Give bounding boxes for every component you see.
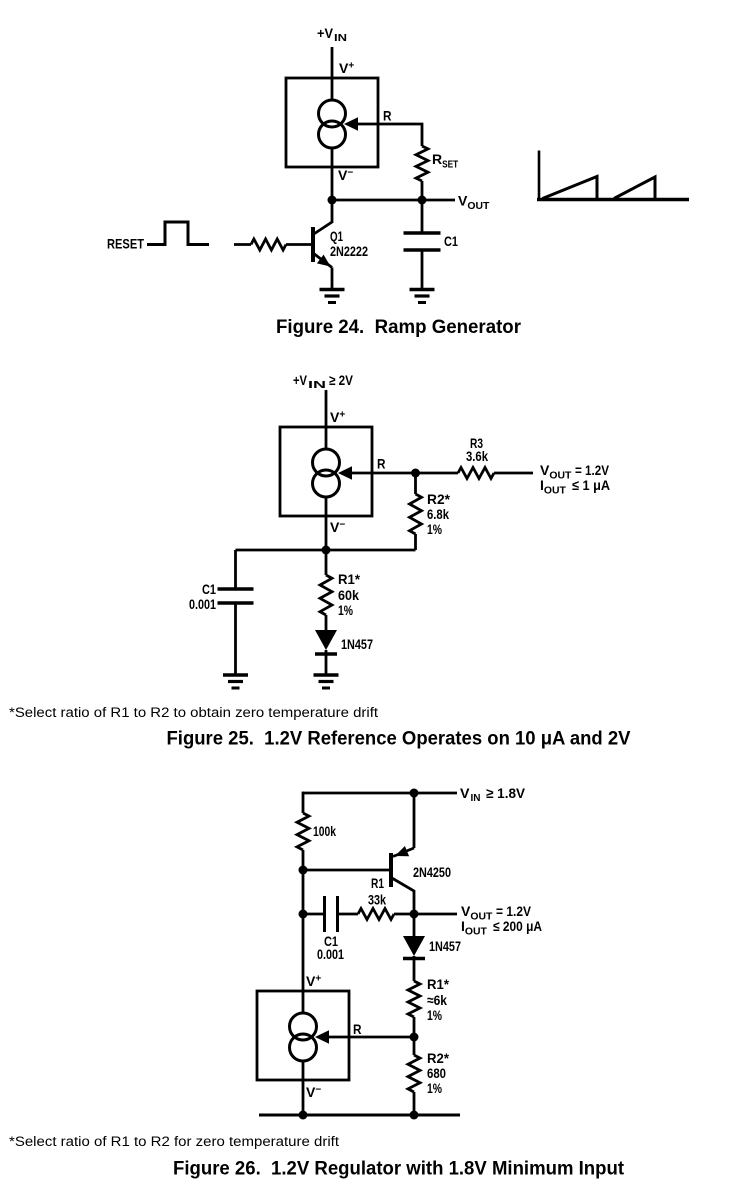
wire R1* to R node (Fig26) xyxy=(413,1017,416,1037)
svg-text:3.6k: 3.6k xyxy=(466,448,488,464)
current source U1 box (Fig26 LM134) xyxy=(257,991,349,1080)
svg-text:0.001: 0.001 xyxy=(189,596,216,612)
transistor 2N4250 emitter wire from rail xyxy=(413,793,416,848)
ground under C1 (Fig24) xyxy=(410,288,435,291)
wire bottom rail C1 to R2 (Fig25) xyxy=(236,549,416,552)
current source U1 lower circle (Fig25) xyxy=(313,470,340,497)
junction dot bottom rail left (Fig26) xyxy=(299,1111,308,1120)
svg-text:Q1: Q1 xyxy=(330,228,343,244)
transistor 2N4250 emitter with arrow xyxy=(393,848,414,857)
junction dot on rail (Fig25) xyxy=(322,546,331,555)
junction dot collector/VOUT (Fig26) xyxy=(410,910,419,919)
svg-text:1%: 1% xyxy=(427,1080,442,1096)
svg-text:33k: 33k xyxy=(368,892,386,908)
svg-text:1N457: 1N457 xyxy=(341,636,373,652)
current source U1 lower circle (Fig26) xyxy=(290,1034,317,1061)
svg-text:VIN≥ 1.8V: VIN≥ 1.8V xyxy=(460,785,526,804)
svg-text:+VIN≥ 2V: +VIN≥ 2V xyxy=(293,372,354,391)
current source U1 upper circle xyxy=(319,100,346,127)
capacitor C1 (Fig24) wire xyxy=(421,200,424,233)
svg-text:680: 680 xyxy=(427,1065,446,1081)
wire VOUT node to C1 (Fig26) xyxy=(303,913,324,916)
wire left rail down to VOUT node (Fig26) xyxy=(302,870,305,914)
svg-text:100k: 100k xyxy=(313,823,336,839)
wire R pin to RSET (Fig24) xyxy=(357,124,422,146)
capacitor C1 plates (Fig24) xyxy=(404,231,441,234)
resistor R2* 6.8k xyxy=(410,494,422,534)
ground under diode (Fig25) xyxy=(314,673,339,676)
wire +VIN to current source (Fig25) xyxy=(325,390,328,449)
capacitor C1 plates (Fig25) xyxy=(218,587,254,590)
svg-text:R1*: R1* xyxy=(427,976,450,992)
resistor R1 33k (Fig26) xyxy=(358,909,394,920)
wire RESET to base resistor xyxy=(234,243,251,246)
wire R node to current source arrow (Fig26) xyxy=(328,1036,414,1039)
resistor R1* ~6k xyxy=(408,981,420,1017)
ground under C1 (Fig25) xyxy=(223,673,248,676)
capacitor C1 plates (Fig26) xyxy=(323,896,326,932)
current source U1 box (Fig25 LM134) xyxy=(280,427,372,516)
svg-text:≈6k: ≈6k xyxy=(427,992,447,1008)
current source U1 R-pin arrow xyxy=(344,117,358,131)
transistor Q1 emitter with arrow xyxy=(313,253,332,268)
wire R1 top lead (Fig25) xyxy=(325,550,328,575)
svg-text:2N4250: 2N4250 xyxy=(413,864,451,880)
svg-text:60k: 60k xyxy=(338,587,359,603)
wire C1 to ground (Fig25) xyxy=(234,603,237,675)
junction dot bottom rail right (Fig26) xyxy=(410,1111,419,1120)
current source U1 upper circle (Fig25) xyxy=(313,449,340,476)
junction node dot at V- / collector (Fig24) xyxy=(328,196,337,205)
svg-text:Figure 25. 1.2V Reference Ope: Figure 25. 1.2V Reference Operates on 10… xyxy=(167,728,631,750)
base resistor (Fig24) xyxy=(251,239,286,250)
sawtooth ramp 2 xyxy=(614,177,655,200)
resistor R1* 60k xyxy=(320,575,332,615)
current source U1 R-pin arrow (Fig26) xyxy=(315,1030,329,1044)
svg-text:R: R xyxy=(377,456,386,472)
capacitor C1 top wire (Fig25) xyxy=(234,550,237,589)
svg-text:V−: V− xyxy=(338,167,353,183)
junction dot top rail (Fig26) xyxy=(410,789,419,798)
transistor Q1 collector wire xyxy=(313,200,332,235)
wire VOUT line (Fig24) xyxy=(332,199,455,202)
current source U1 R-pin arrow (Fig25) xyxy=(338,466,352,480)
wire Q1 emitter to ground xyxy=(331,268,334,290)
svg-text:R2*: R2* xyxy=(427,491,451,507)
svg-text:R1*: R1* xyxy=(338,571,361,587)
resistor R2* 680 xyxy=(408,1055,420,1092)
svg-text:RSET: RSET xyxy=(432,151,458,171)
wire current source V- to VOUT node (Fig24) xyxy=(331,148,334,200)
current source U1 lower circle xyxy=(319,121,346,148)
sawtooth ramp 1 xyxy=(543,177,598,200)
svg-text:V+: V+ xyxy=(330,409,345,425)
RESET pulse waveform xyxy=(147,222,209,245)
wire current source V+ top (Fig26) xyxy=(302,914,305,1013)
current source U1 box (Fig24 LM134) xyxy=(286,78,378,167)
wire diode to ground (Fig25) xyxy=(325,650,328,675)
sawtooth output waveform axis xyxy=(538,151,541,201)
svg-text:1%: 1% xyxy=(338,602,353,618)
svg-text:0.001: 0.001 xyxy=(317,946,344,962)
wire R1 to VOUT (Fig26) xyxy=(394,913,457,916)
junction dot R/R2/R3 (Fig25) xyxy=(411,469,420,478)
svg-text:R2*: R2* xyxy=(427,1050,450,1066)
wire R1 to diode (Fig25) xyxy=(325,615,328,631)
resistor R3 3.6k xyxy=(458,468,494,479)
wire current source V- to bottom rail (Fig26) xyxy=(302,1061,305,1115)
diode 1N457 (Fig26) xyxy=(403,936,425,956)
wire bottom rail (Fig26) xyxy=(259,1114,460,1117)
wire R2* to bottom rail (Fig26) xyxy=(413,1092,416,1115)
wire base resistor to Q1 base xyxy=(286,243,311,246)
wire C1 to R1 (Fig26) xyxy=(338,913,358,916)
svg-text:*Select ratio of R1 to R2 for: *Select ratio of R1 to R2 for zero tempe… xyxy=(9,1134,339,1149)
svg-text:Figure 26. 1.2V Regulator wit: Figure 26. 1.2V Regulator with 1.8V Mini… xyxy=(173,1158,624,1180)
transistor 2N4250 collector xyxy=(391,878,414,915)
resistor 100k xyxy=(297,813,309,850)
wire VOUT to diode (Fig26) xyxy=(413,914,416,937)
wire base node to Q1 base (Fig26) xyxy=(303,869,389,872)
svg-text:VOUT: VOUT xyxy=(458,193,489,213)
svg-text:C1: C1 xyxy=(444,233,458,249)
diode 1N457 (Fig25) xyxy=(315,630,337,650)
wire current source V- down (Fig25) xyxy=(325,497,328,550)
wire R2 top lead (Fig25) xyxy=(414,473,417,494)
svg-text:6.8k: 6.8k xyxy=(427,506,449,522)
svg-text:V−: V− xyxy=(306,1084,321,1100)
current source U1 upper circle (Fig26) xyxy=(290,1013,317,1040)
wire R2 top lead (Fig26) xyxy=(413,1037,416,1055)
junction dot VOUT/C1 left (Fig26) xyxy=(299,910,308,919)
junction dot R node (Fig26) xyxy=(410,1033,419,1042)
svg-text:1%: 1% xyxy=(427,1007,442,1023)
wire R pin to R3 (Fig25) xyxy=(351,472,458,475)
wire top rail VIN (Fig26) xyxy=(303,792,457,795)
wire diode to R1* (Fig26) xyxy=(413,956,416,981)
svg-text:1%: 1% xyxy=(427,521,442,537)
wire rail to 100k (Fig26) xyxy=(302,792,305,813)
junction dot base node (Fig26) xyxy=(299,866,308,875)
transistor 2N4250 base bar xyxy=(389,853,393,887)
svg-text:*Select ratio of R1 to R2 to o: *Select ratio of R1 to R2 to obtain zero… xyxy=(9,705,378,720)
svg-text:Figure 24. Ramp Generator: Figure 24. Ramp Generator xyxy=(276,316,521,338)
svg-text:R1: R1 xyxy=(371,875,384,891)
svg-text:V+: V+ xyxy=(306,973,321,989)
wire R3 to VOUT (Fig25) xyxy=(494,472,533,475)
junction node dot at RSET / C1 (Fig24) xyxy=(418,196,427,205)
svg-text:RESET: RESET xyxy=(107,236,144,252)
wire R2 bottom to rail (Fig25) xyxy=(414,534,417,550)
svg-text:V+: V+ xyxy=(339,60,354,76)
svg-text:+VIN: +VIN xyxy=(317,25,347,44)
wire 100k to base node (Fig26) xyxy=(302,850,305,870)
ground under Q1 emitter xyxy=(320,288,345,291)
wire RSET to VOUT node xyxy=(421,181,424,200)
svg-text:1N457: 1N457 xyxy=(429,938,461,954)
svg-text:C1: C1 xyxy=(202,581,216,597)
wire C1 to ground (Fig24) xyxy=(421,250,424,290)
transistor Q1 base bar xyxy=(311,227,315,262)
svg-text:R: R xyxy=(353,1021,362,1037)
svg-text:2N2222: 2N2222 xyxy=(330,243,368,259)
svg-text:R: R xyxy=(383,108,392,124)
svg-text:V−: V− xyxy=(330,519,345,535)
wire +VIN to current source V+ xyxy=(331,47,334,100)
resistor RSET xyxy=(416,146,428,181)
